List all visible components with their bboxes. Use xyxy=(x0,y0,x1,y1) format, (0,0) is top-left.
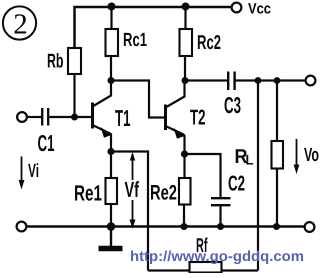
svg-text:C2: C2 xyxy=(228,172,245,196)
terminal Vcc xyxy=(232,3,242,13)
svg-text:2: 2 xyxy=(13,9,28,41)
resistor RL xyxy=(272,141,284,169)
terminal output bottom xyxy=(305,222,315,232)
wire T1 emitter to Re1 xyxy=(110,152,112,179)
terminal input bottom xyxy=(17,222,27,232)
wire Re2 to ground rail xyxy=(183,205,185,227)
node T1 emitter xyxy=(107,148,114,155)
arrow Vi xyxy=(19,157,25,190)
ground xyxy=(99,227,123,249)
wire Re1 to ground rail xyxy=(110,204,112,227)
svg-text:T1: T1 xyxy=(115,105,131,131)
wire RL to ground rail xyxy=(276,169,278,227)
svg-text:Vcc: Vcc xyxy=(248,1,271,18)
svg-text:Vf: Vf xyxy=(125,177,140,202)
node ground rail / RL xyxy=(273,223,280,230)
svg-text:Re2: Re2 xyxy=(150,182,177,205)
node: base of T1 / Rb junction xyxy=(71,114,78,121)
node T2 collector / Rc2 xyxy=(182,77,189,84)
node T1 collector xyxy=(108,77,115,84)
wire C2 to ground rail xyxy=(219,206,221,227)
capacitor C3 xyxy=(228,72,234,91)
wire RL column top xyxy=(276,81,278,142)
wire interstage coupling T1 collector to T2 base xyxy=(111,81,166,118)
resistor Rf xyxy=(190,262,222,273)
wire input to C1 xyxy=(28,116,42,118)
wire C3 to output terminal xyxy=(236,79,306,81)
node: top rail / Rc1 junction xyxy=(108,3,116,11)
capacitor C1 xyxy=(42,108,48,126)
resistor Rb xyxy=(68,48,81,74)
wire Rb to base node xyxy=(73,74,75,117)
terminal input xyxy=(17,112,27,122)
wire T1 emitter node to feedback column xyxy=(111,152,148,271)
wire feedback column from output node xyxy=(257,81,259,271)
wire Rc2 node to C3 xyxy=(185,79,227,81)
arrow Vf measurement xyxy=(130,152,136,229)
svg-text:C1: C1 xyxy=(38,130,55,156)
wire feedback bottom run xyxy=(148,269,258,271)
transistor T1 xyxy=(93,81,112,152)
capacitor C2 xyxy=(211,198,231,205)
node ground rail / Re1 xyxy=(107,222,116,231)
svg-text:http://www.go-gddq.com: http://www.go-gddq.com xyxy=(130,249,304,265)
svg-text:Rb: Rb xyxy=(47,51,64,73)
wire T2 emitter node to Re2 xyxy=(183,154,185,178)
node ground rail / C2 xyxy=(217,223,224,230)
label RL xyxy=(235,146,254,168)
wire C1 to T1 base xyxy=(50,116,93,118)
wire T2 emitter to C2 xyxy=(185,154,221,197)
svg-text:Rc1: Rc1 xyxy=(123,30,147,51)
node: top rail / Rc2 junction xyxy=(182,3,190,11)
resistor Rc1 xyxy=(106,29,119,56)
svg-text:Re1: Re1 xyxy=(74,181,102,206)
svg-text:T2: T2 xyxy=(190,106,206,130)
wire bottom common rail xyxy=(27,225,305,228)
transistor T2 xyxy=(166,81,185,155)
wire rail to Rc2 xyxy=(184,7,186,29)
wire Rc1 to T1 collector node xyxy=(110,56,112,81)
svg-text:C3: C3 xyxy=(224,92,241,118)
resistor Re2 xyxy=(179,178,191,205)
wire top rail Vcc xyxy=(75,7,232,48)
node output / feedback tap xyxy=(255,77,262,84)
arrow Vo xyxy=(294,139,300,174)
node T2 emitter xyxy=(181,150,188,157)
svg-text:Vo: Vo xyxy=(304,145,319,166)
svg-text:L: L xyxy=(246,152,254,168)
node ground rail / Re2 xyxy=(181,223,188,230)
figure number circle 2 xyxy=(3,6,36,40)
resistor Rc2 xyxy=(180,29,193,56)
wire Rc2 to T2 collector node xyxy=(184,56,186,81)
svg-text:Rc2: Rc2 xyxy=(197,32,221,54)
terminal output top xyxy=(306,76,316,86)
svg-text:Vi: Vi xyxy=(28,161,39,182)
wire rail to Rc1 xyxy=(110,7,112,29)
node output / RL top xyxy=(274,77,281,84)
resistor Re1 xyxy=(106,178,118,204)
